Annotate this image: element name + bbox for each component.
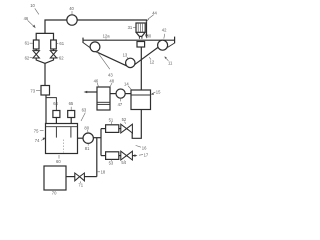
svg-text:16: 16 (142, 145, 147, 150)
svg-text:44: 44 (152, 10, 157, 15)
svg-text:11: 11 (168, 60, 173, 65)
svg-text:43: 43 (108, 73, 113, 78)
svg-text:40: 40 (69, 6, 74, 11)
svg-text:73: 73 (30, 89, 35, 94)
svg-text:15: 15 (156, 90, 161, 95)
svg-text:62: 62 (25, 55, 30, 60)
svg-text:53: 53 (109, 160, 114, 165)
svg-text:13: 13 (123, 53, 128, 58)
svg-text:12a: 12a (103, 34, 111, 39)
svg-text:70: 70 (52, 191, 57, 196)
svg-text:75: 75 (34, 128, 39, 133)
svg-text:54: 54 (121, 160, 126, 165)
svg-text:51: 51 (109, 117, 114, 122)
svg-text:74: 74 (35, 138, 40, 143)
svg-text:61: 61 (59, 41, 64, 46)
svg-text:12: 12 (150, 59, 155, 64)
svg-text:42: 42 (162, 28, 167, 33)
svg-text:31: 31 (128, 25, 133, 30)
svg-text:47: 47 (118, 102, 123, 107)
svg-text:14: 14 (124, 81, 129, 86)
svg-text:80: 80 (84, 125, 89, 130)
svg-text:71: 71 (78, 183, 83, 188)
svg-text:61: 61 (25, 41, 30, 46)
svg-text:10: 10 (30, 3, 35, 8)
svg-text:48: 48 (109, 78, 114, 83)
svg-text:52: 52 (122, 117, 127, 122)
svg-text:17: 17 (144, 152, 149, 157)
svg-text:18: 18 (101, 169, 106, 174)
svg-text:63: 63 (82, 108, 87, 113)
svg-text:65: 65 (69, 101, 74, 106)
svg-text:46: 46 (94, 79, 99, 84)
svg-text:30: 30 (147, 33, 152, 38)
svg-text:81: 81 (85, 146, 90, 151)
svg-text:60: 60 (56, 159, 61, 164)
svg-text:64: 64 (53, 101, 58, 106)
svg-text:46: 46 (24, 16, 29, 21)
svg-text:62: 62 (59, 56, 64, 61)
